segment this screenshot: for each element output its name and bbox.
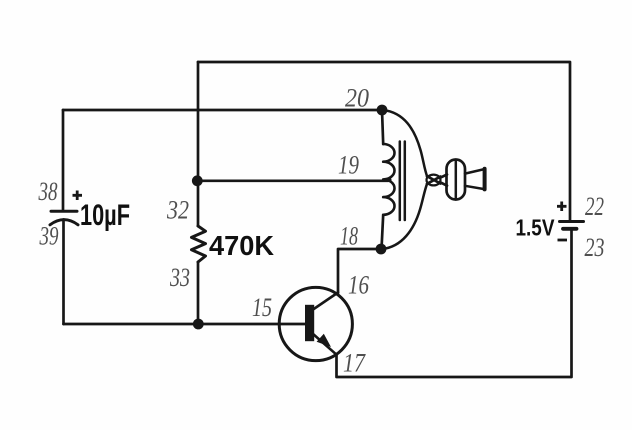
svg-text:17: 17 [343, 349, 366, 378]
transistor collector line [313, 293, 338, 310]
junction node 20 [377, 105, 388, 116]
wire base rail to transistor [64, 323, 307, 326]
wire collector up to node 18 [338, 249, 381, 293]
svg-text:23: 23 [585, 233, 605, 262]
wire top rail from resistor top to battery plus [198, 62, 570, 220]
wire capacitor left vertical lower [62, 220, 65, 325]
transistor emitter arrowhead [317, 334, 331, 347]
earphone horn mouth edge [483, 169, 487, 190]
earphone horn cone [465, 169, 484, 189]
transformer core line left [399, 142, 402, 221]
junction node tap 32 [192, 175, 203, 186]
capacitor plus sign [73, 191, 83, 201]
svg-text:20: 20 [345, 84, 369, 113]
transformer primary coil upper stub [382, 110, 383, 144]
svg-text:16: 16 [348, 271, 369, 300]
svg-text:10µF: 10µF [80, 199, 130, 232]
wire curve node20 to earphone twist [383, 110, 427, 176]
wire tap from node 32/33 branch to coil midpoint [198, 179, 391, 180]
battery B1 long positive plate [560, 220, 584, 223]
wire capacitor left vertical upper [62, 110, 65, 210]
svg-text:15: 15 [252, 293, 272, 322]
battery plus sign [557, 202, 567, 212]
wire curve node18 to earphone twist [382, 184, 427, 249]
earphone capsule center line [455, 160, 458, 200]
svg-text:32: 32 [166, 196, 189, 225]
earphone twisted pair loop [427, 175, 441, 186]
capacitor C 10uF bottom curved plate [50, 220, 78, 225]
transformer core line right [404, 142, 407, 221]
capacitor C 10uF top plate [51, 210, 77, 213]
battery minus sign [558, 239, 568, 242]
transistor emitter line [313, 334, 337, 355]
svg-text:1.5V: 1.5V [516, 215, 556, 241]
transformer primary coil scallops [383, 144, 394, 215]
transistor base bar [305, 305, 314, 341]
wire capacitor top to node 20 [63, 109, 382, 112]
wire vertical resistor branch upper [197, 62, 200, 226]
svg-text:470K: 470K [209, 230, 274, 261]
earphone twist crossing wire b [427, 177, 441, 184]
battery B1 short negative plate [563, 227, 577, 231]
wire vertical resistor branch lower [197, 262, 200, 324]
transformer primary coil lower stub [382, 215, 384, 249]
earphone twist exit wire upper [440, 175, 447, 178]
earphone capsule body [447, 160, 466, 200]
svg-text:18: 18 [340, 222, 358, 251]
resistor R 470K [192, 226, 206, 262]
svg-text:19: 19 [338, 151, 359, 180]
transistor Q1 circle [279, 287, 352, 360]
junction node 15/33 [193, 319, 204, 330]
svg-text:33: 33 [169, 263, 190, 292]
junction node 18 [376, 244, 387, 255]
svg-text:38: 38 [38, 177, 58, 206]
earphone twist crossing wire a [427, 176, 441, 183]
svg-text:39: 39 [39, 222, 59, 251]
svg-text:22: 22 [585, 192, 604, 221]
wire bottom rail from battery minus down and left to transistor emitter [337, 231, 572, 378]
earphone twist exit wire lower [440, 182, 447, 185]
